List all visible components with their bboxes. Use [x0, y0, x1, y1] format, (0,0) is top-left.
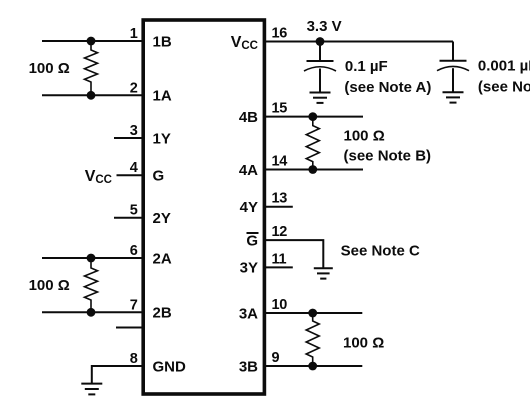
- wire pin 13: [264, 206, 293, 208]
- svg-text:2A: 2A: [153, 250, 172, 267]
- resistor R3 100ohm between 4B/4A: [306, 117, 319, 170]
- svg-text:1B: 1B: [153, 33, 172, 50]
- svg-text:3B: 3B: [239, 358, 258, 375]
- svg-text:4Y: 4Y: [240, 199, 258, 216]
- wire pin 14: [264, 169, 363, 171]
- svg-text:VCC: VCC: [85, 168, 112, 186]
- ground See Note C: [314, 268, 333, 278]
- ground GND pin 8: [81, 384, 102, 395]
- node junction pin10: [308, 309, 317, 318]
- node junction pin15: [308, 112, 317, 121]
- node junction pin7: [87, 308, 96, 317]
- svg-text:5: 5: [130, 203, 138, 219]
- svg-text:(see Note B): (see Note B): [344, 147, 432, 164]
- IC body U1: [143, 20, 264, 394]
- svg-text:14: 14: [272, 154, 288, 170]
- svg-text:6: 6: [130, 243, 138, 259]
- wire stub below pin 7: [116, 327, 143, 329]
- svg-text:1: 1: [130, 26, 138, 42]
- node junction pin14: [308, 165, 317, 174]
- wire pin 7: [42, 311, 143, 313]
- svg-text:1A: 1A: [153, 88, 172, 105]
- node junction 3.3V: [316, 37, 325, 46]
- wire pin 2: [42, 94, 143, 96]
- wire pin 1: [42, 40, 143, 42]
- svg-text:1Y: 1Y: [153, 130, 171, 147]
- svg-text:100 Ω: 100 Ω: [343, 334, 384, 351]
- svg-text:4: 4: [130, 160, 138, 176]
- wire cap C1 top lead: [319, 42, 321, 62]
- wire pin 4: [117, 174, 144, 176]
- svg-text:10: 10: [272, 297, 288, 313]
- wire pin 8 GND: [92, 366, 143, 384]
- wire pin 11: [264, 266, 293, 268]
- wire 3.3V rail corner down to C2: [452, 42, 454, 61]
- svg-text:G: G: [246, 232, 258, 249]
- capacitor C1 0.1uF: [304, 61, 336, 93]
- svg-text:100 Ω: 100 Ω: [29, 60, 70, 77]
- svg-text:0.1 µF: 0.1 µF: [345, 58, 388, 75]
- svg-text:(see Note A): (see Note A): [478, 79, 530, 96]
- svg-text:2B: 2B: [153, 305, 172, 322]
- ground for C1: [310, 93, 331, 103]
- node junction pin9: [308, 362, 317, 371]
- svg-text:13: 13: [272, 191, 288, 207]
- svg-text:GND: GND: [153, 358, 187, 375]
- svg-text:2: 2: [130, 80, 138, 96]
- wire pin 6: [42, 257, 143, 259]
- svg-text:G: G: [153, 168, 165, 185]
- node junction pin1: [87, 37, 96, 46]
- svg-text:3.3 V: 3.3 V: [307, 18, 342, 35]
- overline for G-bar label: [247, 232, 259, 234]
- svg-text:7: 7: [130, 297, 138, 313]
- wire pin 3: [114, 137, 143, 139]
- wire pin 5: [114, 217, 143, 219]
- wire pin 9: [264, 365, 362, 367]
- svg-text:9: 9: [272, 350, 280, 366]
- ground for C2: [443, 92, 464, 102]
- svg-text:4A: 4A: [239, 162, 258, 179]
- svg-text:100 Ω: 100 Ω: [344, 128, 385, 145]
- svg-text:8: 8: [130, 351, 138, 367]
- wire pin 16 to 3.3V rail: [264, 41, 453, 43]
- node junction pin2: [87, 91, 96, 100]
- svg-text:4B: 4B: [239, 109, 258, 126]
- svg-text:11: 11: [272, 251, 287, 267]
- wire pin 15: [264, 116, 363, 118]
- svg-text:3: 3: [130, 123, 138, 139]
- resistor R2 100ohm between 2A/2B: [85, 258, 98, 312]
- wire pin 10: [264, 312, 362, 314]
- svg-text:3Y: 3Y: [240, 260, 258, 277]
- wire pin 12 to ground: [264, 240, 323, 268]
- resistor R1 100ohm between 1B/1A: [85, 41, 98, 95]
- resistor R4 100ohm between 3A/3B: [306, 313, 319, 366]
- svg-text:2Y: 2Y: [153, 210, 171, 227]
- capacitor C2 0.001uF: [437, 61, 469, 92]
- svg-text:100 Ω: 100 Ω: [29, 277, 70, 294]
- svg-text:See Note C: See Note C: [341, 242, 420, 259]
- svg-text:3A: 3A: [239, 305, 258, 322]
- svg-text:0.001 µF: 0.001 µF: [478, 58, 530, 75]
- svg-text:16: 16: [272, 26, 288, 42]
- svg-text:15: 15: [272, 101, 288, 117]
- svg-text:(see Note A): (see Note A): [344, 79, 431, 96]
- svg-text:12: 12: [272, 224, 288, 240]
- node junction pin6: [87, 254, 96, 263]
